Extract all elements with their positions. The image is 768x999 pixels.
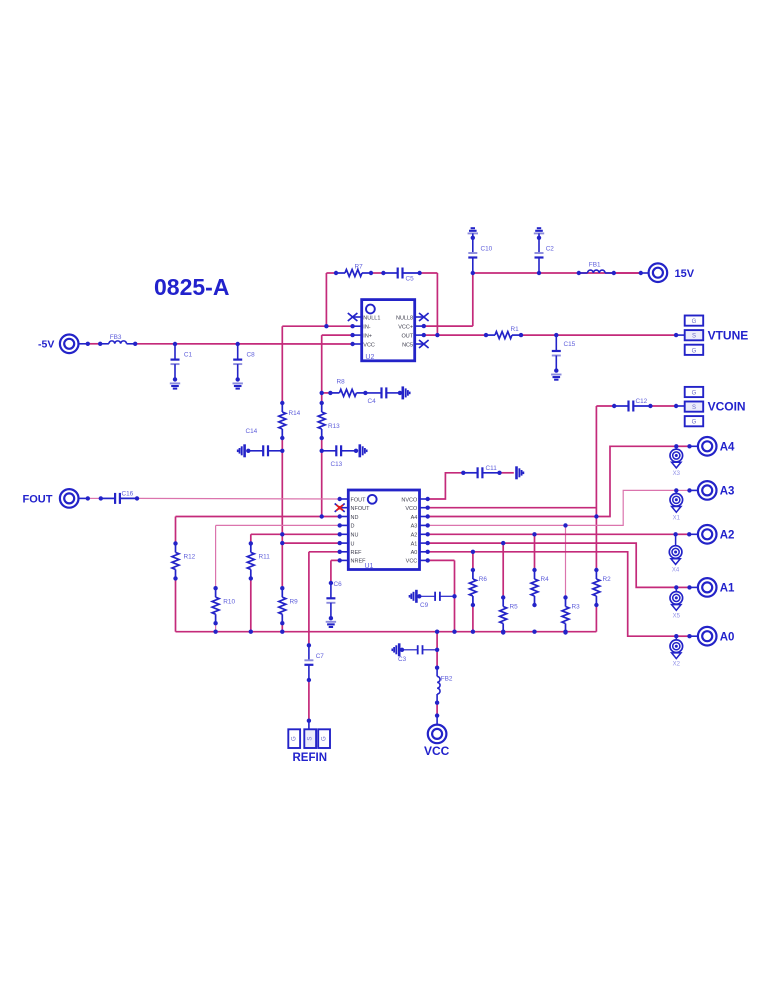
junction dot (213, 586, 217, 590)
wire (676, 635, 689, 637)
junction dot (369, 271, 373, 275)
wire IN- net (282, 325, 352, 327)
junction dot (501, 630, 505, 634)
junction dot (173, 377, 177, 381)
junction dot (687, 532, 691, 536)
junction dot (426, 497, 430, 501)
svg-text:S: S (692, 405, 696, 411)
test point X2 (670, 636, 683, 668)
wire VCO net (428, 507, 597, 509)
junction dot (687, 488, 691, 492)
junction dot (519, 333, 523, 337)
resistor R2 (593, 570, 600, 605)
pin NC5 stub (415, 343, 424, 345)
pin REF stub (340, 551, 349, 553)
svg-text:U1: U1 (365, 563, 374, 570)
resistor R1 (486, 332, 521, 339)
connector A4 (698, 437, 717, 456)
junction dot (532, 568, 536, 572)
pin NFOUT stub (340, 507, 349, 509)
junction dot (363, 391, 367, 395)
pin NU stub (340, 533, 349, 535)
wire FB2 drop (436, 632, 438, 668)
wire ND riser (175, 517, 177, 544)
wire stub (676, 334, 685, 336)
junction dot (471, 603, 475, 607)
svg-text:G: G (292, 736, 298, 741)
junction dot (563, 523, 567, 527)
junction dot (173, 342, 177, 346)
junction dot (532, 603, 536, 607)
capacitor C3 (402, 645, 437, 654)
no-connect X on NULL8 (419, 313, 429, 321)
wire stub (79, 497, 88, 499)
svg-text:A4: A4 (720, 442, 735, 454)
svg-text:FB1: FB1 (589, 262, 601, 269)
wire (215, 623, 217, 632)
svg-text:X3: X3 (673, 471, 681, 477)
junction dot (497, 471, 501, 475)
junction dot (280, 586, 284, 590)
junction dot (98, 342, 102, 346)
wire A3-R3 riser (565, 525, 567, 597)
junction dot (213, 621, 217, 625)
junction dot (537, 236, 541, 240)
wire A1-R5 riser (502, 543, 504, 597)
connector REFIN G-S-G (288, 729, 330, 748)
svg-text:R2: R2 (603, 576, 612, 583)
resistor R5 (500, 598, 507, 633)
svg-text:R13: R13 (328, 423, 340, 430)
junction dot (329, 581, 333, 585)
svg-text:REF: REF (351, 550, 363, 556)
capacitor C13 (322, 445, 356, 456)
wire (472, 233, 474, 253)
junction dot (687, 634, 691, 638)
junction dot (594, 514, 598, 518)
pin A2 stub (420, 533, 428, 535)
connector VTUNE G-S-G (685, 316, 704, 355)
junction dot (329, 616, 333, 620)
svg-text:NVCO: NVCO (401, 497, 418, 503)
pin NULL1 stub (353, 316, 362, 318)
svg-text:U2: U2 (365, 354, 374, 361)
wire IN+ vertical chain (321, 335, 323, 403)
ground (left) for C14 (238, 444, 245, 457)
wire REF riser (308, 552, 310, 646)
junction dot (280, 621, 284, 625)
svg-text:A2: A2 (720, 530, 735, 542)
svg-text:ND: ND (351, 515, 359, 521)
resistor R13 (318, 403, 325, 438)
capacitor C7 (304, 645, 313, 680)
svg-text:FOUT: FOUT (351, 497, 367, 503)
ground (right) for C4 (403, 386, 410, 399)
test point X1 (670, 490, 683, 521)
connector VCC (428, 725, 447, 744)
resistor R6 (469, 570, 476, 605)
junction dot (338, 523, 342, 527)
junction dot (350, 333, 354, 337)
junction dot (99, 496, 103, 500)
junction dot (280, 532, 284, 536)
junction dot (687, 444, 691, 448)
wire VCC+ riser (472, 273, 474, 326)
capacitor C15 (552, 335, 561, 371)
pin D stub (340, 524, 349, 526)
junction dot (86, 496, 90, 500)
wire (676, 533, 690, 535)
svg-text:OUT: OUT (401, 333, 413, 339)
junction dot (612, 271, 616, 275)
junction dot (426, 541, 430, 545)
junction dot (687, 585, 691, 589)
wire NU riser (250, 534, 252, 543)
wire A2-R4 riser (534, 534, 536, 570)
wire (321, 438, 323, 517)
wire bottom rail (176, 631, 597, 633)
wire IN- vertical chain (281, 326, 283, 403)
pin A1 stub (420, 542, 428, 544)
junction dot (554, 368, 558, 372)
junction dot (563, 630, 567, 634)
wire (676, 586, 689, 588)
junction dot (422, 324, 426, 328)
wire (371, 272, 384, 274)
wire A1 net (428, 543, 677, 587)
svg-text:C5: C5 (406, 276, 415, 283)
junction dot (280, 401, 284, 405)
junction dot (320, 391, 324, 395)
wire (538, 233, 540, 253)
wire D net (thin) (216, 524, 340, 526)
wire A2 net (428, 533, 676, 535)
wire A3 net (thin) (428, 490, 677, 525)
junction dot (471, 236, 475, 240)
wire D riser (215, 525, 217, 588)
wire NU net (251, 533, 340, 535)
no-connect X on NULL1 (348, 313, 358, 321)
ground (right) for C11 (517, 466, 524, 479)
svg-text:A3: A3 (720, 486, 735, 498)
resistor R14 (279, 403, 286, 438)
junction dot (426, 506, 430, 510)
wire chain down (281, 451, 283, 588)
svg-text:C3: C3 (398, 656, 407, 663)
wire (436, 703, 438, 716)
svg-text:FB2: FB2 (441, 676, 453, 683)
svg-text:S: S (308, 737, 314, 741)
wire (500, 472, 514, 474)
svg-text:C16: C16 (122, 490, 134, 497)
svg-text:VCC+: VCC+ (398, 324, 413, 330)
connector -5V (60, 335, 79, 354)
wire stub (79, 343, 88, 345)
junction dot (338, 506, 342, 510)
capacitor C12 (614, 401, 650, 412)
junction dot (435, 630, 439, 634)
junction dot (461, 471, 465, 475)
junction dot (338, 558, 342, 562)
connector A1 (698, 578, 717, 597)
svg-text:C8: C8 (247, 352, 256, 359)
junction dot (435, 713, 439, 717)
svg-text:A1: A1 (720, 583, 735, 595)
junction dot (648, 404, 652, 408)
wire stub (676, 405, 685, 407)
wire (676, 445, 689, 447)
junction dot (246, 449, 250, 453)
resistor R9 (279, 588, 286, 623)
junction dot (249, 630, 253, 634)
junction dot (338, 532, 342, 536)
junction dot (435, 666, 439, 670)
wire (420, 272, 438, 274)
junction dot (426, 550, 430, 554)
resistor R12 (172, 543, 179, 578)
pin NREF stub (340, 559, 349, 561)
pin NULL8 stub (415, 316, 424, 318)
test point X5 (670, 587, 683, 619)
svg-text:R7: R7 (355, 264, 364, 271)
svg-text:C12: C12 (636, 398, 648, 405)
wire -5V rail (135, 343, 352, 345)
svg-text:NU: NU (351, 533, 359, 539)
svg-text:IN-: IN- (363, 325, 371, 331)
junction dot (594, 568, 598, 572)
junction dot (249, 576, 253, 580)
wire feedback top (326, 272, 336, 274)
svg-text:C13: C13 (331, 461, 343, 468)
wire (88, 343, 100, 345)
junction dot (320, 449, 324, 453)
junction dot (537, 271, 541, 275)
junction dot (532, 532, 536, 536)
junction dot (426, 558, 430, 562)
svg-text:G: G (321, 736, 327, 741)
junction dot (173, 541, 177, 545)
capacitor C5 (383, 268, 419, 279)
ground for C6 (326, 622, 336, 627)
resistor R11 (247, 543, 254, 578)
junction dot (236, 377, 240, 381)
svg-text:R14: R14 (289, 410, 301, 417)
wire (250, 578, 252, 631)
wire VCC net (428, 559, 455, 561)
node 15V rail wire (473, 272, 641, 274)
junction dot (674, 488, 678, 492)
wire FOUT net (thin) (137, 497, 340, 500)
pin U stub (340, 542, 349, 544)
IC U1 (348, 490, 419, 570)
svg-text:NULL1: NULL1 (363, 315, 380, 321)
junction dot (320, 514, 324, 518)
svg-text:C1: C1 (184, 352, 193, 359)
svg-text:-5V: -5V (38, 339, 54, 351)
test point X3 (670, 446, 683, 477)
no-connect X on NC5 (419, 340, 429, 348)
junction dot (435, 701, 439, 705)
pin IN+ stub (353, 334, 362, 336)
junction dot (471, 271, 475, 275)
wire VCC riser (454, 560, 456, 631)
svg-text:A4: A4 (411, 515, 418, 521)
junction dot (320, 401, 324, 405)
junction dot (563, 630, 567, 634)
test point X4 (669, 534, 682, 573)
ground for C15 (551, 375, 561, 380)
junction dot (350, 342, 354, 346)
junction dot (577, 271, 581, 275)
junction dot (328, 391, 332, 395)
svg-text:R8: R8 (337, 379, 346, 386)
wire (650, 405, 676, 407)
junction dot (674, 404, 678, 408)
capacitor C14 (248, 445, 282, 456)
svg-text:R9: R9 (290, 599, 299, 606)
junction dot (673, 532, 677, 536)
svg-text:X4: X4 (672, 568, 680, 574)
pin NVCO stub (420, 498, 428, 500)
junction dot (471, 568, 475, 572)
wire OUT net (424, 334, 486, 336)
junction dot (484, 333, 488, 337)
junction dot (249, 541, 253, 545)
junction dot (338, 514, 342, 518)
wire (595, 605, 597, 632)
wire stub (690, 445, 698, 447)
wire IN+ net (322, 334, 353, 336)
junction dot (133, 342, 137, 346)
junction dot (350, 324, 354, 328)
svg-text:NFOUT: NFOUT (351, 506, 371, 512)
junction dot (501, 595, 505, 599)
junction dot (594, 603, 598, 607)
junction dot (435, 333, 439, 337)
connector VCOIN G-S-G (685, 387, 704, 426)
wire (472, 605, 474, 632)
wire (596, 405, 614, 407)
junction dot (471, 550, 475, 554)
junction dot (426, 514, 430, 518)
junction dot (426, 532, 430, 536)
svg-text:R12: R12 (184, 554, 196, 561)
connector 15V (649, 263, 668, 282)
svg-text:R1: R1 (511, 326, 520, 333)
ground (left) for C3 (392, 643, 399, 656)
wire (676, 489, 689, 491)
wire VCC+ to 15V riser (424, 325, 473, 327)
junction dot (381, 271, 385, 275)
wire (308, 680, 310, 721)
svg-text:C10: C10 (481, 246, 493, 253)
junction dot (501, 541, 505, 545)
svg-text:NULL8: NULL8 (396, 315, 413, 321)
no-connect red X on NFOUT (335, 504, 345, 512)
ground (up) for C10 (468, 228, 478, 233)
junction dot (324, 324, 328, 328)
svg-text:R11: R11 (259, 554, 271, 561)
svg-text:G: G (692, 348, 697, 354)
junction dot (307, 719, 311, 723)
svg-text:R10: R10 (223, 599, 235, 606)
wire stub (690, 489, 698, 491)
connector A0 (698, 627, 717, 646)
svg-text:G: G (692, 319, 697, 325)
resistor R8 (330, 389, 365, 396)
svg-text:C11: C11 (486, 465, 498, 472)
pin FOUT stub (340, 498, 349, 500)
svg-text:VTUNE: VTUNE (708, 328, 749, 342)
svg-text:D: D (351, 524, 355, 530)
wire (281, 623, 283, 632)
svg-text:C7: C7 (316, 653, 325, 660)
junction dot (554, 333, 558, 337)
ground for C1 (170, 383, 180, 388)
pin A3 stub (420, 524, 428, 526)
junction dot (674, 333, 678, 337)
svg-text:VCC: VCC (363, 342, 375, 348)
wire REF net (309, 551, 340, 553)
svg-text:15V: 15V (675, 268, 695, 280)
junction dot (280, 449, 284, 453)
pin A0 stub (420, 551, 428, 553)
svg-text:U: U (351, 541, 355, 547)
capacitor C16 (101, 493, 137, 504)
svg-text:FB3: FB3 (110, 334, 122, 341)
junction dot (532, 630, 536, 634)
op-amp U2 (362, 300, 415, 361)
ground (right) for C13 (360, 444, 367, 457)
junction dot (320, 436, 324, 440)
svg-text:VCO: VCO (405, 506, 418, 512)
wire NVCO net (428, 473, 464, 499)
junction dot (435, 648, 439, 652)
junction dot (173, 576, 177, 580)
capacitor C9 (419, 592, 454, 601)
ferrite bead FB3 (100, 341, 135, 344)
wire OUT to VTUNE (521, 334, 676, 336)
junction dot (501, 630, 505, 634)
junction dot (674, 634, 678, 638)
wire (281, 438, 283, 451)
resistor R7 (336, 270, 371, 277)
junction dot (334, 271, 338, 275)
ground for C8 (233, 383, 243, 388)
junction dot (452, 630, 456, 634)
junction dot (280, 541, 284, 545)
capacitor C10 (468, 253, 477, 273)
junction dot (338, 541, 342, 545)
wire (88, 497, 101, 499)
pin OUT stub (415, 334, 424, 336)
svg-text:R6: R6 (479, 576, 488, 583)
svg-text:R4: R4 (541, 576, 550, 583)
connector FOUT (60, 489, 79, 508)
ferrite bead FB1 (579, 270, 614, 273)
svg-text:R3: R3 (572, 604, 581, 611)
junction dot (471, 630, 475, 634)
wire stub (690, 586, 698, 588)
svg-text:C15: C15 (564, 341, 576, 348)
wire stub (690, 635, 698, 637)
wire VCO riser to VCOIN (595, 406, 597, 570)
svg-text:A3: A3 (411, 524, 418, 530)
wire R8 branch stub (322, 392, 331, 394)
connector A3 (698, 481, 717, 500)
junction dot (213, 630, 217, 634)
svg-text:R5: R5 (510, 604, 519, 611)
